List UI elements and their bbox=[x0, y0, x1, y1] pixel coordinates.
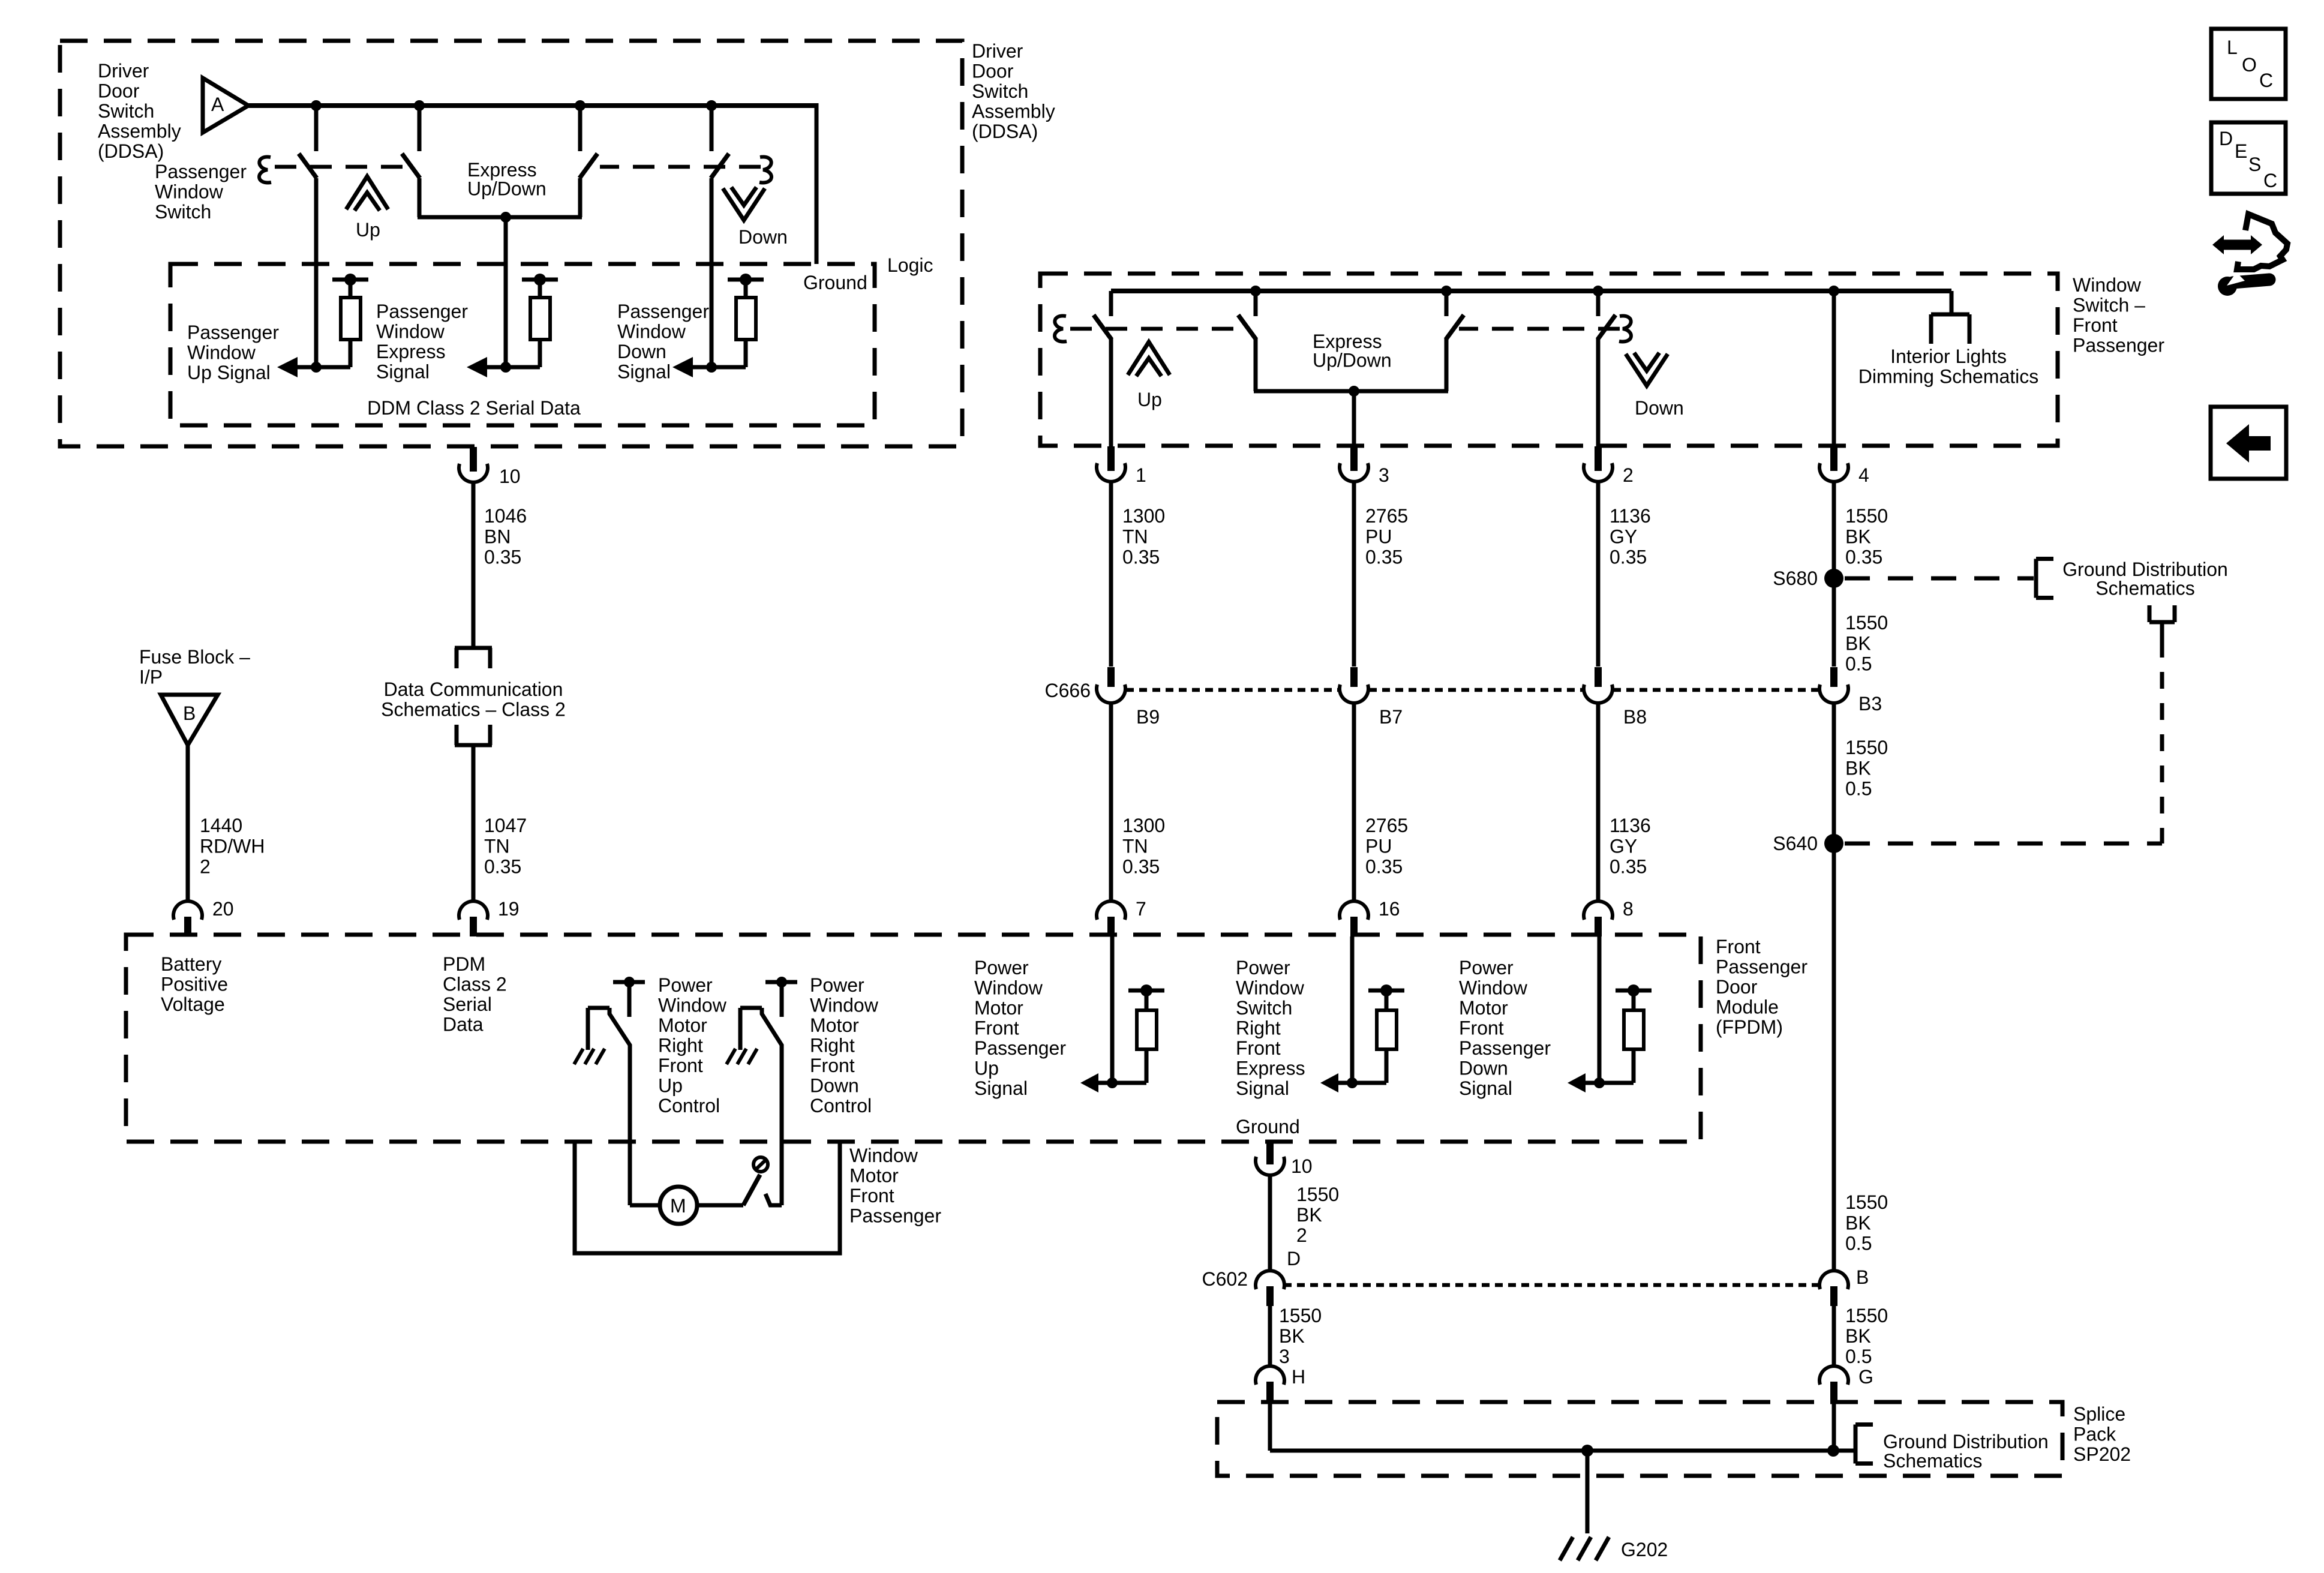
svg-text:S: S bbox=[2248, 154, 2261, 175]
svg-text:Signal: Signal bbox=[1459, 1077, 1512, 1099]
svg-text:Down: Down bbox=[617, 341, 666, 362]
svg-text:Front: Front bbox=[1236, 1037, 1281, 1059]
svg-text:Front: Front bbox=[2073, 314, 2118, 336]
FPDM signal resistor: up signal bbox=[1110, 936, 1115, 1083]
svg-text:Passenger: Passenger bbox=[974, 1037, 1066, 1059]
box: Window Switch Front Passenger bbox=[1040, 274, 2058, 446]
svg-text:C: C bbox=[2263, 170, 2277, 191]
svg-text:Passenger: Passenger bbox=[376, 301, 468, 322]
svg-text:0.35: 0.35 bbox=[484, 547, 521, 568]
FPDM signal resistor: down signal bbox=[1598, 936, 1602, 1083]
motor M (window motor front passenger) bbox=[660, 1187, 697, 1224]
pin 10 connector (FPDM ground) bbox=[1266, 1140, 1274, 1164]
svg-text:1550: 1550 bbox=[1845, 612, 1888, 634]
svg-text:TN: TN bbox=[1122, 526, 1148, 547]
svg-text:Motor: Motor bbox=[1459, 997, 1508, 1019]
svg-text:Front: Front bbox=[1716, 936, 1761, 957]
svg-text:BN: BN bbox=[484, 526, 511, 547]
icon: DESC box bbox=[2211, 122, 2286, 194]
svg-text:Schematics: Schematics bbox=[1883, 1450, 1982, 1472]
svg-text:Switch: Switch bbox=[1236, 997, 1292, 1019]
linkage brace left (WS) bbox=[1055, 316, 1067, 342]
wire: express common bar (DDSA) bbox=[418, 215, 582, 220]
svg-text:Window: Window bbox=[849, 1145, 918, 1166]
svg-text:16: 16 bbox=[1379, 898, 1400, 920]
svg-text:B: B bbox=[1856, 1266, 1869, 1288]
svg-text:PDM: PDM bbox=[443, 953, 485, 975]
svg-text:Signal: Signal bbox=[1236, 1077, 1289, 1099]
svg-text:S640: S640 bbox=[1773, 833, 1818, 854]
svg-text:Module: Module bbox=[1716, 996, 1779, 1018]
svg-text:Window: Window bbox=[1236, 977, 1305, 999]
svg-text:M: M bbox=[670, 1195, 686, 1217]
svg-text:Window: Window bbox=[155, 181, 224, 203]
wire: S680 dashed to ground distribution bbox=[1845, 577, 2034, 581]
off-page bracket: ground distribution (upper) bbox=[2034, 559, 2038, 598]
switch Express-left (WS) bbox=[1254, 291, 1258, 316]
pin 1 connector bbox=[1107, 446, 1115, 471]
svg-text:Up: Up bbox=[974, 1058, 999, 1079]
svg-text:Power: Power bbox=[974, 957, 1029, 978]
pin 10 connector (DDSA bottom) bbox=[470, 447, 477, 472]
svg-text:GY: GY bbox=[1610, 835, 1637, 857]
svg-text:Passenger: Passenger bbox=[617, 301, 709, 322]
svg-text:Pack: Pack bbox=[2073, 1424, 2116, 1445]
svg-text:Switch: Switch bbox=[972, 80, 1028, 102]
svg-text:4: 4 bbox=[1858, 464, 1869, 486]
svg-text:0.5: 0.5 bbox=[1845, 778, 1872, 800]
svg-text:Passenger: Passenger bbox=[2073, 335, 2164, 356]
svg-text:Up Signal: Up Signal bbox=[187, 362, 271, 383]
svg-text:Ground: Ground bbox=[1236, 1116, 1300, 1137]
svg-text:0.5: 0.5 bbox=[1845, 1233, 1872, 1254]
svg-text:3: 3 bbox=[1279, 1346, 1290, 1367]
svg-text:0.35: 0.35 bbox=[1365, 856, 1403, 878]
pin 2 connector bbox=[1595, 446, 1602, 471]
svg-text:DDM Class 2 Serial Data: DDM Class 2 Serial Data bbox=[367, 397, 581, 419]
connector C666 cavity B8 bbox=[1595, 667, 1602, 687]
svg-text:B3: B3 bbox=[1858, 693, 1882, 715]
wire: C602 dotted connector line bbox=[1284, 1283, 1819, 1287]
svg-text:Passenger: Passenger bbox=[187, 322, 279, 343]
icon: back arrow box bbox=[2211, 407, 2286, 479]
svg-text:BK: BK bbox=[1845, 632, 1871, 654]
wire 1550 BK 3 bbox=[1268, 1305, 1272, 1365]
splice S680 bbox=[1824, 569, 1843, 588]
svg-text:Window: Window bbox=[376, 321, 445, 343]
svg-text:1136: 1136 bbox=[1610, 505, 1651, 527]
wire 1047 TN bbox=[472, 745, 476, 901]
linkage brace left bbox=[259, 157, 271, 183]
svg-text:Passenger: Passenger bbox=[1459, 1037, 1551, 1059]
svg-text:1550: 1550 bbox=[1845, 737, 1888, 758]
pin 3 connector bbox=[1350, 446, 1358, 471]
svg-text:1046: 1046 bbox=[484, 505, 527, 527]
svg-text:S680: S680 bbox=[1773, 568, 1818, 589]
svg-text:Express: Express bbox=[1236, 1058, 1305, 1079]
off-page: Data Communication Schematics - Class 2 bbox=[455, 646, 492, 650]
node: bus junctions bbox=[311, 100, 322, 111]
svg-text:C602: C602 bbox=[1202, 1268, 1248, 1290]
wire 1550 BK 2 bbox=[1268, 1175, 1272, 1269]
svg-text:Down: Down bbox=[1635, 397, 1684, 419]
svg-text:Right: Right bbox=[1236, 1017, 1281, 1039]
icon: LOC box bbox=[2211, 29, 2286, 99]
wire 1550 BK 0.35 bbox=[1832, 482, 1836, 578]
svg-text:Control: Control bbox=[810, 1095, 872, 1116]
wire 1550 BK 0.5 (B-G) bbox=[1832, 1305, 1836, 1365]
svg-text:C666: C666 bbox=[1045, 680, 1091, 701]
symbol: Up chevron (DDSA) bbox=[346, 176, 388, 209]
svg-text:BK: BK bbox=[1845, 1325, 1871, 1347]
icon: repair wrench bbox=[2212, 235, 2262, 254]
svg-text:Express: Express bbox=[376, 341, 446, 362]
svg-text:Logic: Logic bbox=[887, 254, 933, 276]
svg-text:D: D bbox=[2219, 128, 2233, 149]
wire: interior lights stub bbox=[1950, 291, 1954, 314]
svg-text:1550: 1550 bbox=[1845, 505, 1888, 527]
thermal breaker switch + symbol bbox=[743, 1175, 760, 1205]
svg-text:Signal: Signal bbox=[974, 1077, 1028, 1099]
svg-text:Driver: Driver bbox=[972, 40, 1023, 62]
svg-text:TN: TN bbox=[1122, 835, 1148, 857]
box: Driver Door Switch Assembly (DDSA) bbox=[60, 41, 962, 446]
wire: motor leads bbox=[630, 1203, 660, 1208]
svg-text:Control: Control bbox=[658, 1095, 720, 1116]
svg-text:Ground: Ground bbox=[803, 272, 867, 293]
wire: switch linkage dashed bbox=[275, 165, 411, 169]
svg-text:B8: B8 bbox=[1623, 706, 1647, 728]
svg-text:20: 20 bbox=[212, 898, 234, 920]
svg-text:Up: Up bbox=[1137, 389, 1162, 410]
svg-text:BK: BK bbox=[1845, 757, 1871, 779]
pin 4 connector bbox=[1830, 446, 1837, 471]
wire: motor return U loop bbox=[575, 1143, 840, 1253]
FPDM signal resistor: express signal bbox=[1350, 936, 1355, 1083]
svg-text:A: A bbox=[211, 94, 224, 115]
svg-text:0.35: 0.35 bbox=[1610, 547, 1647, 568]
wire: S640 dashed to ground distribution bbox=[1845, 842, 2162, 846]
svg-text:Motor: Motor bbox=[974, 997, 1023, 1019]
wire 2765 PU upper segment bbox=[1352, 482, 1356, 667]
wire 1550 BK 0.5 (S680-B3) bbox=[1832, 578, 1836, 667]
svg-text:7: 7 bbox=[1136, 898, 1146, 920]
svg-text:B7: B7 bbox=[1379, 706, 1403, 728]
svg-text:Switch: Switch bbox=[98, 100, 154, 122]
wire 2765 PU lower segment bbox=[1352, 701, 1356, 901]
symbol: Down chevron (DDSA) bbox=[723, 188, 765, 220]
svg-text:Switch –: Switch – bbox=[2073, 295, 2145, 316]
svg-text:Motor: Motor bbox=[810, 1014, 859, 1036]
linkage brace right (WS) bbox=[1619, 316, 1631, 342]
pin 19 connector (FPDM top) bbox=[459, 901, 488, 920]
svg-text:Data: Data bbox=[443, 1014, 484, 1035]
svg-text:(DDSA): (DDSA) bbox=[98, 140, 164, 162]
switch: window motor up control bbox=[613, 980, 645, 984]
box: Logic (DDM) bbox=[170, 264, 875, 425]
svg-text:0.35: 0.35 bbox=[484, 856, 521, 878]
resistor R1 + Up Signal arrow bbox=[332, 278, 368, 282]
svg-text:B9: B9 bbox=[1136, 706, 1160, 728]
svg-text:Motor: Motor bbox=[658, 1014, 707, 1036]
svg-text:Front: Front bbox=[810, 1055, 855, 1076]
svg-text:1136: 1136 bbox=[1610, 815, 1651, 836]
pin 8 connector (FPDM) bbox=[1584, 901, 1613, 920]
svg-text:1550: 1550 bbox=[1845, 1305, 1888, 1326]
svg-text:Up: Up bbox=[658, 1075, 683, 1097]
wire 1550 BK 0.5 (B3-S640) bbox=[1832, 701, 1836, 843]
svg-text:G: G bbox=[1858, 1366, 1873, 1388]
svg-text:E: E bbox=[2235, 140, 2247, 162]
svg-text:Schematics – Class 2: Schematics – Class 2 bbox=[381, 699, 566, 721]
svg-text:2: 2 bbox=[200, 856, 211, 878]
switch: window motor down control bbox=[765, 980, 797, 984]
wire 1136 GY upper segment bbox=[1596, 482, 1601, 667]
svg-text:1300: 1300 bbox=[1122, 815, 1165, 836]
splice S640 bbox=[1824, 834, 1843, 853]
svg-text:Assembly: Assembly bbox=[98, 121, 181, 142]
wire: C666 dotted connector line bbox=[1126, 688, 1339, 692]
svg-text:Signal: Signal bbox=[617, 361, 671, 383]
box: Splice Pack SP202 bbox=[1217, 1402, 2062, 1476]
svg-text:C: C bbox=[2259, 70, 2273, 91]
box: Front Passenger Door Module (FPDM) bbox=[126, 935, 1701, 1142]
svg-text:I/P: I/P bbox=[139, 667, 163, 688]
connector C666 cavity B3 bbox=[1830, 667, 1837, 687]
svg-text:(DDSA): (DDSA) bbox=[972, 121, 1038, 142]
svg-text:2765: 2765 bbox=[1365, 505, 1408, 527]
wire: ground drop G202 bbox=[1586, 1451, 1590, 1533]
svg-text:Splice: Splice bbox=[2073, 1403, 2125, 1425]
wire 1440 RD/WH bbox=[186, 745, 190, 901]
svg-text:L: L bbox=[2227, 37, 2238, 58]
svg-text:0.35: 0.35 bbox=[1610, 856, 1647, 878]
pin H connector (splice pack) bbox=[1256, 1366, 1284, 1385]
wire 1136 GY lower segment bbox=[1596, 701, 1601, 901]
svg-text:BK: BK bbox=[1845, 1212, 1871, 1233]
svg-text:Down: Down bbox=[1459, 1058, 1508, 1079]
wire: bus to Logic ground bbox=[815, 103, 819, 264]
svg-text:Right: Right bbox=[658, 1035, 703, 1056]
svg-text:Window: Window bbox=[974, 977, 1043, 999]
svg-text:0.5: 0.5 bbox=[1845, 653, 1872, 675]
svg-text:0.35: 0.35 bbox=[1122, 547, 1160, 568]
pin 20 connector (FPDM top) bbox=[173, 901, 202, 920]
svg-text:2765: 2765 bbox=[1365, 815, 1408, 836]
svg-text:G202: G202 bbox=[1621, 1539, 1668, 1560]
svg-text:TN: TN bbox=[484, 835, 510, 857]
switch S3 Express-right (DDSA) bbox=[578, 106, 582, 151]
switch S1 Up (DDSA) bbox=[314, 106, 319, 151]
svg-text:BK: BK bbox=[1845, 526, 1871, 547]
connector C602 cavity B bbox=[1819, 1271, 1848, 1289]
linkage brace right bbox=[759, 157, 771, 183]
svg-text:SP202: SP202 bbox=[2073, 1443, 2131, 1465]
svg-text:Power: Power bbox=[1236, 957, 1290, 978]
off-page fork + dashed drop bbox=[2148, 605, 2152, 622]
wire: DDSA supply bus bbox=[248, 103, 816, 108]
svg-text:10: 10 bbox=[1291, 1155, 1313, 1177]
resistor R3 + Down Signal arrow bbox=[728, 278, 764, 282]
svg-text:Assembly: Assembly bbox=[972, 101, 1055, 122]
svg-text:Motor: Motor bbox=[849, 1165, 899, 1187]
svg-text:Interior Lights: Interior Lights bbox=[1890, 346, 2007, 367]
symbol: Down chevron (WS) bbox=[1626, 354, 1668, 386]
switch Express-right (WS) bbox=[1445, 291, 1449, 316]
svg-text:B: B bbox=[183, 703, 196, 724]
svg-text:Front: Front bbox=[658, 1055, 703, 1076]
connector triangle A bbox=[203, 78, 248, 133]
svg-text:8: 8 bbox=[1623, 898, 1634, 920]
svg-text:Front: Front bbox=[1459, 1017, 1504, 1039]
connector triangle B (fuse block) bbox=[161, 695, 218, 745]
pin 16 connector (FPDM) bbox=[1340, 901, 1368, 920]
svg-text:Door: Door bbox=[1716, 976, 1758, 998]
wire 1300 TN lower segment bbox=[1109, 701, 1113, 901]
connector C666 cavity B7 bbox=[1350, 667, 1358, 687]
svg-text:1047: 1047 bbox=[484, 815, 527, 836]
off-page bracket: ground distribution (splice) bbox=[1854, 1425, 1858, 1464]
switch Down (WS) bbox=[1596, 291, 1601, 316]
svg-text:Ground Distribution: Ground Distribution bbox=[1883, 1431, 2049, 1452]
pin G connector (splice pack) bbox=[1819, 1366, 1848, 1385]
svg-text:Data Communication: Data Communication bbox=[384, 679, 563, 700]
svg-text:PU: PU bbox=[1365, 526, 1392, 547]
svg-text:Schematics: Schematics bbox=[2095, 578, 2194, 599]
svg-text:1300: 1300 bbox=[1122, 505, 1165, 527]
svg-text:Window: Window bbox=[187, 342, 256, 364]
svg-text:Up/Down: Up/Down bbox=[467, 178, 547, 200]
svg-text:Window: Window bbox=[617, 321, 686, 343]
svg-text:1440: 1440 bbox=[200, 815, 242, 836]
wire: express common bar (WS) bbox=[1254, 389, 1448, 394]
svg-text:1: 1 bbox=[1136, 464, 1146, 486]
svg-text:1550: 1550 bbox=[1296, 1184, 1339, 1205]
svg-text:BK: BK bbox=[1296, 1204, 1322, 1226]
pin 7 connector (FPDM) bbox=[1097, 901, 1125, 920]
svg-text:Door: Door bbox=[972, 61, 1014, 82]
svg-text:2: 2 bbox=[1296, 1224, 1307, 1246]
svg-text:Passenger: Passenger bbox=[155, 161, 247, 182]
ground G202 symbol bbox=[1560, 1537, 1573, 1560]
svg-text:Signal: Signal bbox=[376, 361, 430, 383]
svg-text:Voltage: Voltage bbox=[161, 993, 225, 1015]
svg-text:O: O bbox=[2242, 54, 2257, 76]
svg-text:Down: Down bbox=[738, 226, 788, 248]
svg-text:BK: BK bbox=[1279, 1325, 1305, 1347]
svg-text:Fuse Block –: Fuse Block – bbox=[139, 646, 250, 668]
wire 1300 TN upper segment bbox=[1109, 482, 1113, 667]
svg-text:Battery: Battery bbox=[161, 953, 221, 975]
svg-text:Up/Down: Up/Down bbox=[1313, 350, 1392, 371]
svg-text:Class 2: Class 2 bbox=[443, 974, 507, 995]
svg-text:Switch: Switch bbox=[155, 201, 211, 223]
svg-text:(FPDM): (FPDM) bbox=[1716, 1016, 1783, 1038]
svg-text:H: H bbox=[1292, 1366, 1305, 1388]
switch S2 Express-left (DDSA) bbox=[418, 106, 422, 151]
svg-text:Power: Power bbox=[810, 974, 864, 996]
svg-text:Driver: Driver bbox=[98, 60, 149, 82]
svg-text:1550: 1550 bbox=[1279, 1305, 1322, 1326]
svg-text:D: D bbox=[1287, 1248, 1301, 1269]
svg-text:Power: Power bbox=[658, 974, 713, 996]
svg-text:0.35: 0.35 bbox=[1122, 856, 1160, 878]
svg-text:Window: Window bbox=[2073, 274, 2142, 296]
svg-text:Door: Door bbox=[98, 80, 140, 102]
svg-text:0.35: 0.35 bbox=[1845, 547, 1882, 568]
wire 1550 BK 0.5 (S640 down) bbox=[1832, 843, 1836, 1269]
svg-text:Power: Power bbox=[1459, 957, 1514, 978]
svg-text:Window: Window bbox=[1459, 977, 1528, 999]
wire 4 to pin 4 bbox=[1832, 291, 1836, 447]
wire: splice bus bbox=[1270, 1449, 1855, 1453]
switch S4 Down (DDSA) bbox=[710, 106, 714, 151]
switch Up (WS) bbox=[1109, 291, 1113, 316]
wire: switch linkage dashed (WS) bbox=[1070, 327, 1237, 331]
svg-text:Dimming Schematics: Dimming Schematics bbox=[1858, 366, 2039, 388]
svg-text:Front: Front bbox=[974, 1017, 1019, 1039]
symbol: Up chevron (WS) bbox=[1128, 342, 1170, 375]
resistor R2 + Express Signal arrow bbox=[522, 278, 558, 282]
svg-text:0.5: 0.5 bbox=[1845, 1346, 1872, 1367]
svg-text:Window: Window bbox=[810, 995, 879, 1016]
svg-text:Passenger: Passenger bbox=[849, 1205, 941, 1227]
svg-text:10: 10 bbox=[499, 466, 521, 487]
svg-text:Down: Down bbox=[810, 1075, 859, 1097]
svg-text:Right: Right bbox=[810, 1035, 855, 1056]
svg-text:Positive: Positive bbox=[161, 974, 228, 995]
svg-text:2: 2 bbox=[1623, 464, 1634, 486]
connector C666 cavity B9 bbox=[1107, 667, 1115, 687]
svg-text:PU: PU bbox=[1365, 835, 1392, 857]
off-page: Interior Lights Dimming bbox=[1931, 313, 1969, 317]
svg-text:19: 19 bbox=[498, 898, 520, 920]
svg-text:Up: Up bbox=[356, 219, 380, 241]
connector C602 cavity D bbox=[1256, 1271, 1284, 1289]
svg-text:RD/WH: RD/WH bbox=[200, 835, 265, 857]
wire: window switch bus bbox=[1111, 289, 1951, 293]
svg-text:0.35: 0.35 bbox=[1365, 547, 1403, 568]
svg-text:Front: Front bbox=[849, 1185, 894, 1206]
svg-text:3: 3 bbox=[1379, 464, 1389, 486]
svg-text:Passenger: Passenger bbox=[1716, 956, 1807, 978]
svg-text:1550: 1550 bbox=[1845, 1191, 1888, 1213]
svg-text:GY: GY bbox=[1610, 526, 1637, 547]
svg-text:Window: Window bbox=[658, 995, 727, 1016]
svg-text:Serial: Serial bbox=[443, 993, 492, 1015]
wire 1046 BN bbox=[472, 482, 476, 648]
